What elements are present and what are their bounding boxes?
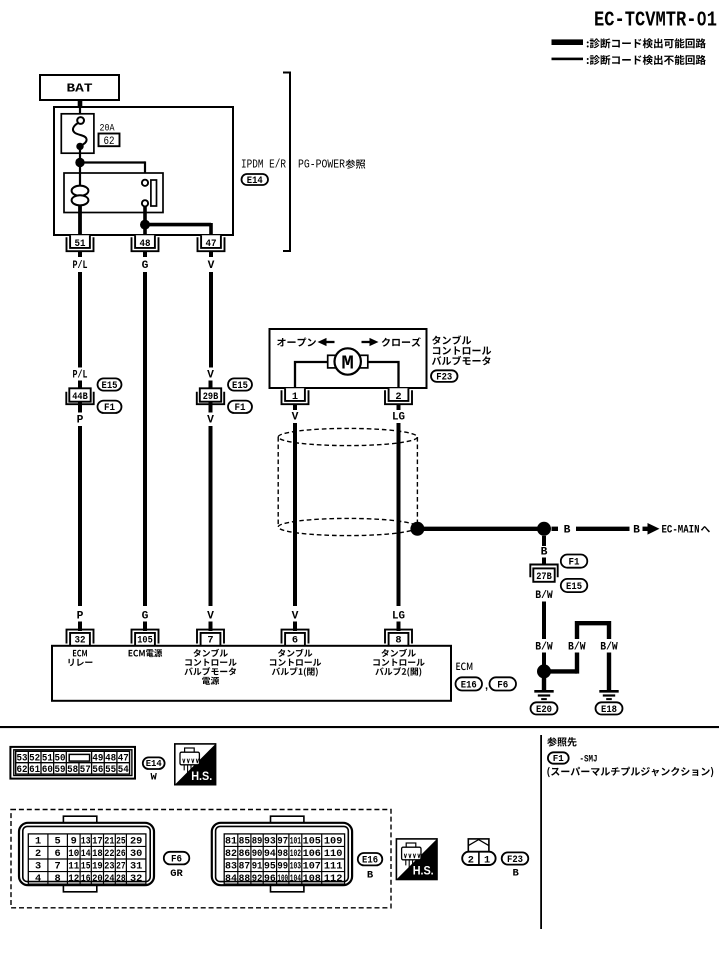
svg-text:E20: E20 [536,705,552,716]
svg-text:F1: F1 [235,403,246,414]
label -SMJ [580,754,598,766]
wire relay junction to pin 47 [145,223,211,236]
wire P run [78,426,82,606]
svg-text:19: 19 [92,861,103,873]
wire motor to pin 1 [295,362,328,389]
comma separator [485,680,488,692]
wire stub below pin 48 [143,251,147,257]
svg-text:IPDM E/R: IPDM E/R [241,159,286,172]
svg-text:59: 59 [54,764,65,776]
svg-text:48: 48 [105,753,116,765]
ground E18 [599,691,618,699]
wire P/L run [78,272,82,368]
label V above pin 6 [292,611,299,623]
svg-text:88: 88 [239,873,251,885]
svg-text:F23: F23 [436,372,452,383]
wire fuse junction to relay coil [79,163,81,175]
svg-text:13: 13 [81,836,91,848]
svg-text:1: 1 [484,854,490,866]
node shield drain junction [410,522,424,536]
wire stub below pin 1 [293,404,297,410]
svg-text:24: 24 [104,873,114,885]
svg-text:2: 2 [35,848,41,860]
svg-text:H.S.: H.S. [413,864,434,878]
label wire color B (1) [564,524,571,536]
label B (F23 color) [512,868,519,880]
svg-text:,: , [485,680,488,692]
svg-text:105: 105 [303,836,321,848]
svg-text:94: 94 [264,848,276,860]
svg-text:B: B [564,524,571,536]
svg-text:30: 30 [130,848,142,860]
svg-text:50: 50 [54,753,65,765]
svg-text:EC-MAIN: EC-MAIN [662,524,700,536]
connector E15 oval (29B) [228,378,252,391]
wire branch to mid leg [544,653,577,674]
arrow close (right) [362,338,379,346]
label バルブモータ (motor) [432,356,491,365]
label wire color V (47) [208,260,215,272]
pin 8 (ECM) [385,630,412,647]
wire stub into 44B [78,381,82,390]
svg-text:104: 104 [290,873,301,885]
svg-text:E15: E15 [566,582,582,593]
svg-text:25: 25 [116,836,126,848]
svg-text:98: 98 [277,848,288,860]
label V above 29B [207,370,214,382]
svg-text:29B: 29B [203,391,219,403]
svg-text:14: 14 [81,848,91,860]
svg-text:E16: E16 [461,680,477,691]
svg-text:109: 109 [324,836,343,848]
wire stub into 27B [542,558,546,566]
battery BAT [40,75,119,100]
svg-text:62: 62 [17,764,28,776]
svg-text:62: 62 [104,136,115,148]
arrow open (left) [318,338,335,346]
svg-text:93: 93 [264,836,276,848]
svg-text:V: V [207,370,214,382]
node B junction [537,522,551,536]
connector 29B (SMJ) [197,388,224,404]
svg-text:53: 53 [17,753,28,765]
svg-text:23: 23 [104,861,114,873]
svg-text:E14: E14 [146,759,163,769]
svg-text:1: 1 [292,391,298,403]
svg-text:22: 22 [104,848,114,860]
label EC-MAINへ [662,524,710,536]
wire V run (pin 6) [293,423,297,606]
svg-text:E15: E15 [102,381,118,392]
icon H.S. (E14) [175,744,216,785]
svg-text:B/W: B/W [535,642,553,654]
svg-text:11: 11 [68,861,79,873]
connector E16 oval (ECM) [456,677,483,691]
svg-text:6: 6 [55,848,61,860]
label wire color G [142,260,149,272]
label V below 29B [207,414,214,426]
svg-text:26: 26 [116,848,126,860]
svg-text:EC-TCVMTR-01: EC-TCVMTR-01 [594,10,717,33]
svg-text:W: W [151,772,158,784]
svg-text:31: 31 [130,861,142,873]
connector view E14 pin grid [16,751,130,776]
svg-text:V: V [292,611,299,623]
title EC-TCVMTR-01 [594,10,717,33]
wire stub into 29B [209,381,213,390]
svg-text:110: 110 [324,848,343,860]
svg-text:2: 2 [468,854,474,866]
label ECM電源 (pin 105) [129,649,163,657]
svg-text:B: B [367,869,374,881]
pin 2 (motor) [385,388,412,404]
svg-text:BAT: BAT [67,83,93,96]
connector F23 oval [431,370,458,383]
legend thick line (diagnosis detectable) [552,39,584,45]
connector E16 oval (view) [358,853,383,867]
label クローズ [382,337,421,346]
label LG above pin 8 [392,611,405,623]
svg-text:F6: F6 [497,680,508,691]
label タンブルコントロールバルブ1(閉) (pin 6) [270,649,321,677]
label B/W (right leg) [600,642,618,654]
label GR (F6 color) [170,868,183,880]
svg-text:47: 47 [206,238,217,250]
wire junction to ground E20 [542,678,546,691]
fuse number 62 [99,134,120,148]
wire G run [143,272,147,606]
label P above pin 32 [77,611,84,623]
node B/W ground junction [537,664,551,678]
svg-text:84: 84 [225,873,237,885]
wire stub into ECM pin 7 [209,622,213,632]
svg-text:B: B [541,547,548,559]
svg-text:F1: F1 [553,754,565,764]
svg-text:F1: F1 [104,403,115,414]
label wire color B (2) [633,524,640,536]
ECM box [52,646,451,701]
svg-text:B: B [633,524,640,536]
svg-text:81: 81 [225,836,237,848]
wire B shield to junction [417,527,537,531]
wire stub below pin 2 [397,404,401,410]
relay ECM (coil and contact) [64,173,163,213]
svg-text:7: 7 [55,861,61,873]
svg-text:F1: F1 [569,557,580,568]
svg-text:H.S.: H.S. [191,769,212,783]
fuse 20A (slot 62) [61,107,94,160]
svg-text:87: 87 [239,861,251,873]
svg-text:61: 61 [29,764,40,776]
svg-text:8: 8 [55,873,61,885]
label wire color P/L [73,260,88,272]
svg-text:B: B [512,868,519,880]
connector F1 oval (29B) [228,401,252,415]
svg-text:P: P [77,611,84,623]
svg-text:LG: LG [392,412,405,424]
label wire color V (pin 1) [292,412,299,424]
svg-text:108: 108 [303,873,321,885]
label W (E14 color) [151,772,158,784]
connector 44B (SMJ) [66,388,93,404]
label P below 44B [77,414,84,426]
wire stub into ECM pin 8 [397,622,401,632]
label PG-POWER参照 [298,159,365,172]
svg-text:12: 12 [68,873,79,885]
label 参照先 [547,737,576,746]
shield (dashed cylinder) [278,428,417,535]
label B/W (mid leg) [568,642,586,654]
svg-text:LG: LG [392,611,405,623]
label wire color LG (pin 2) [392,412,405,424]
svg-text:9: 9 [71,836,77,848]
svg-text:GR: GR [170,868,183,880]
pin 48 (IPDM) [132,235,159,251]
separator line [0,726,719,728]
svg-text:F6: F6 [171,854,182,865]
svg-text:28: 28 [116,873,126,885]
svg-text:1: 1 [35,836,41,848]
connector E18 oval [596,702,623,715]
label タンブル (motor) [432,335,471,344]
svg-text:111: 111 [324,861,343,873]
svg-text:55: 55 [105,764,116,776]
svg-text:92: 92 [252,873,263,885]
svg-text:P/L: P/L [73,260,88,272]
label IPDM E/R [241,159,286,172]
wire relay coil to pin 51 [78,213,82,237]
label P/L above 44B [73,370,88,382]
wire motor to pin 2 [368,362,399,389]
label タンブルコントロールバルブモータ電源 (pin 7) [184,649,236,685]
svg-text:56: 56 [92,764,103,776]
dashed box (harness connectors) [11,810,391,908]
svg-text:20: 20 [92,873,103,885]
label V above pin 7 [207,611,214,623]
wire stub below 29B [209,402,213,413]
svg-text:B/W: B/W [535,590,553,602]
wire stub into ECM pin 6 [293,622,297,632]
pin 7 (ECM) [197,630,224,647]
svg-text:17: 17 [92,836,103,848]
pin 51 (IPDM) [67,235,94,251]
svg-text:83: 83 [225,861,237,873]
wire V run (47) [209,272,213,368]
pin 1 (motor) [282,388,309,404]
svg-text:2: 2 [395,391,401,403]
pin 6 (ECM) [282,630,309,647]
wire mid-right bridge [577,623,609,639]
ground E20 [534,691,553,699]
connector F1 oval (reference) [548,752,569,764]
svg-text:100: 100 [277,873,288,885]
wire V run (pin 7) [209,426,213,606]
IPDM E/R box [54,107,233,235]
motor box (tumble control valve motor) [270,329,427,388]
connector F6 oval (view) [164,852,190,866]
pin 105 (ECM) [132,630,159,647]
wire stub below pin 51 [78,251,82,257]
svg-text:51: 51 [75,238,86,250]
svg-text:48: 48 [140,238,151,250]
svg-text:10: 10 [68,848,79,860]
svg-text:E18: E18 [601,705,617,716]
wire relay contact to pin 48 [143,206,147,236]
svg-text:32: 32 [130,873,142,885]
label スーパーマルチプルジャンクション [547,767,713,778]
wire B run to EC-MAIN [576,527,630,531]
svg-text:107: 107 [303,861,321,873]
svg-text:102: 102 [290,848,301,860]
wire stub below 44B [78,402,82,413]
svg-text:86: 86 [239,848,251,860]
svg-text:60: 60 [42,764,53,776]
connector F1 oval (44B) [98,401,122,415]
connector 27B (SMJ) [530,565,557,583]
svg-text:F23: F23 [507,855,523,866]
svg-text:29: 29 [130,836,142,848]
svg-text:G: G [142,260,149,272]
label ECM (right of box) [456,663,472,671]
wire B/W run [542,602,546,640]
svg-text:51: 51 [42,753,53,765]
svg-text:49: 49 [92,753,103,765]
connector F1 oval (27B) [561,555,588,569]
svg-text:82: 82 [225,848,237,860]
connector E15 oval (27B) [561,579,588,593]
svg-text:V: V [292,412,299,424]
svg-text:M: M [341,352,354,374]
svg-text:91: 91 [252,861,263,873]
connector E14 oval [242,174,269,187]
svg-text:52: 52 [29,753,40,765]
wire stub into ECM pin 105 [143,622,147,632]
svg-text:B/W: B/W [568,642,586,654]
wire B/W to ground node [542,653,546,666]
label B/W (left leg) [535,642,553,654]
connector view E16 (4x8 grid) [212,816,352,892]
wire fuse junction to relay contact [80,161,145,179]
arrow to EC-MAIN [643,523,660,535]
svg-text:G: G [142,611,149,623]
svg-text:16: 16 [81,873,91,885]
svg-text:E14: E14 [247,176,263,187]
reference divider line [540,735,542,929]
svg-text:101: 101 [290,836,301,848]
svg-text:99: 99 [277,861,288,873]
svg-text:57: 57 [80,764,91,776]
fuse label 20A [100,122,116,134]
bracket PG-POWER [283,73,290,252]
wire stub into ECM pin 32 [78,622,82,632]
wire B down from junction [542,536,546,546]
svg-text:95: 95 [264,861,276,873]
icon H.S. (F6/E16) [396,839,437,880]
svg-text:21: 21 [104,836,114,848]
svg-text:96: 96 [264,873,276,885]
node relay output junction [140,220,150,230]
wire B dash after junction [552,527,559,531]
svg-text:PG-POWER: PG-POWER [298,159,345,172]
connector F23 oval (view) [502,852,529,865]
connector E14 oval (view) [143,757,165,769]
svg-text:27B: 27B [536,571,552,583]
svg-text:112: 112 [324,873,343,885]
svg-text:5: 5 [55,836,61,848]
motor M1 (tumble control valve motor) [328,348,368,374]
svg-text:58: 58 [67,764,78,776]
pin 32 (ECM) [67,630,94,647]
label wire color B/W (below 27B) [535,590,553,602]
svg-text:103: 103 [290,861,301,873]
svg-text:V: V [207,611,214,623]
wire right leg to ground [607,653,611,692]
svg-text:54: 54 [118,764,129,776]
connector E15 oval (44B) [98,378,122,391]
connector view E14 body [10,747,135,779]
svg-text:V: V [207,414,214,426]
svg-text:4: 4 [35,873,41,885]
connector F6 oval (ECM) [490,677,517,691]
svg-text:90: 90 [252,848,263,860]
legend label not detectable [587,55,706,65]
label オープン [277,337,316,346]
legend thin line (diagnosis not detectable) [552,58,584,61]
label タンブルコントロールバルブ2(開) (pin 8) [373,649,424,677]
connector view F6 (4x8 grid) [19,816,154,892]
connector E20 oval [531,702,558,715]
svg-text:B/W: B/W [600,642,618,654]
label ECM リレー (pin 32) [69,650,93,666]
svg-text:85: 85 [239,836,251,848]
label コントロール (motor) [433,346,491,354]
svg-text:V: V [208,260,215,272]
svg-text:47: 47 [118,753,129,765]
label B (E16 color) [367,869,374,881]
connector F23 view [462,839,495,866]
svg-text:27: 27 [116,861,126,873]
svg-text:97: 97 [277,836,288,848]
svg-text:44B: 44B [72,391,88,403]
wire LG run (pin 8) [397,423,401,606]
svg-text:106: 106 [303,848,321,860]
wire stub below pin 47 [209,251,213,257]
svg-text:E15: E15 [232,381,248,392]
svg-text:15: 15 [81,861,91,873]
svg-text:E16: E16 [362,856,378,867]
svg-text:89: 89 [252,836,263,848]
pin 47 (IPDM) [198,235,225,251]
node fuse output junction [75,158,84,167]
wire BAT to IPDM [78,100,83,110]
svg-text:P: P [77,414,84,426]
label G above pin 105 [142,611,149,623]
legend label detectable [587,38,706,48]
svg-text:3: 3 [35,861,41,873]
label wire color B (down) [541,547,548,559]
svg-text:18: 18 [92,848,103,860]
svg-text:-SMJ: -SMJ [580,754,598,766]
svg-text:P/L: P/L [73,370,88,382]
